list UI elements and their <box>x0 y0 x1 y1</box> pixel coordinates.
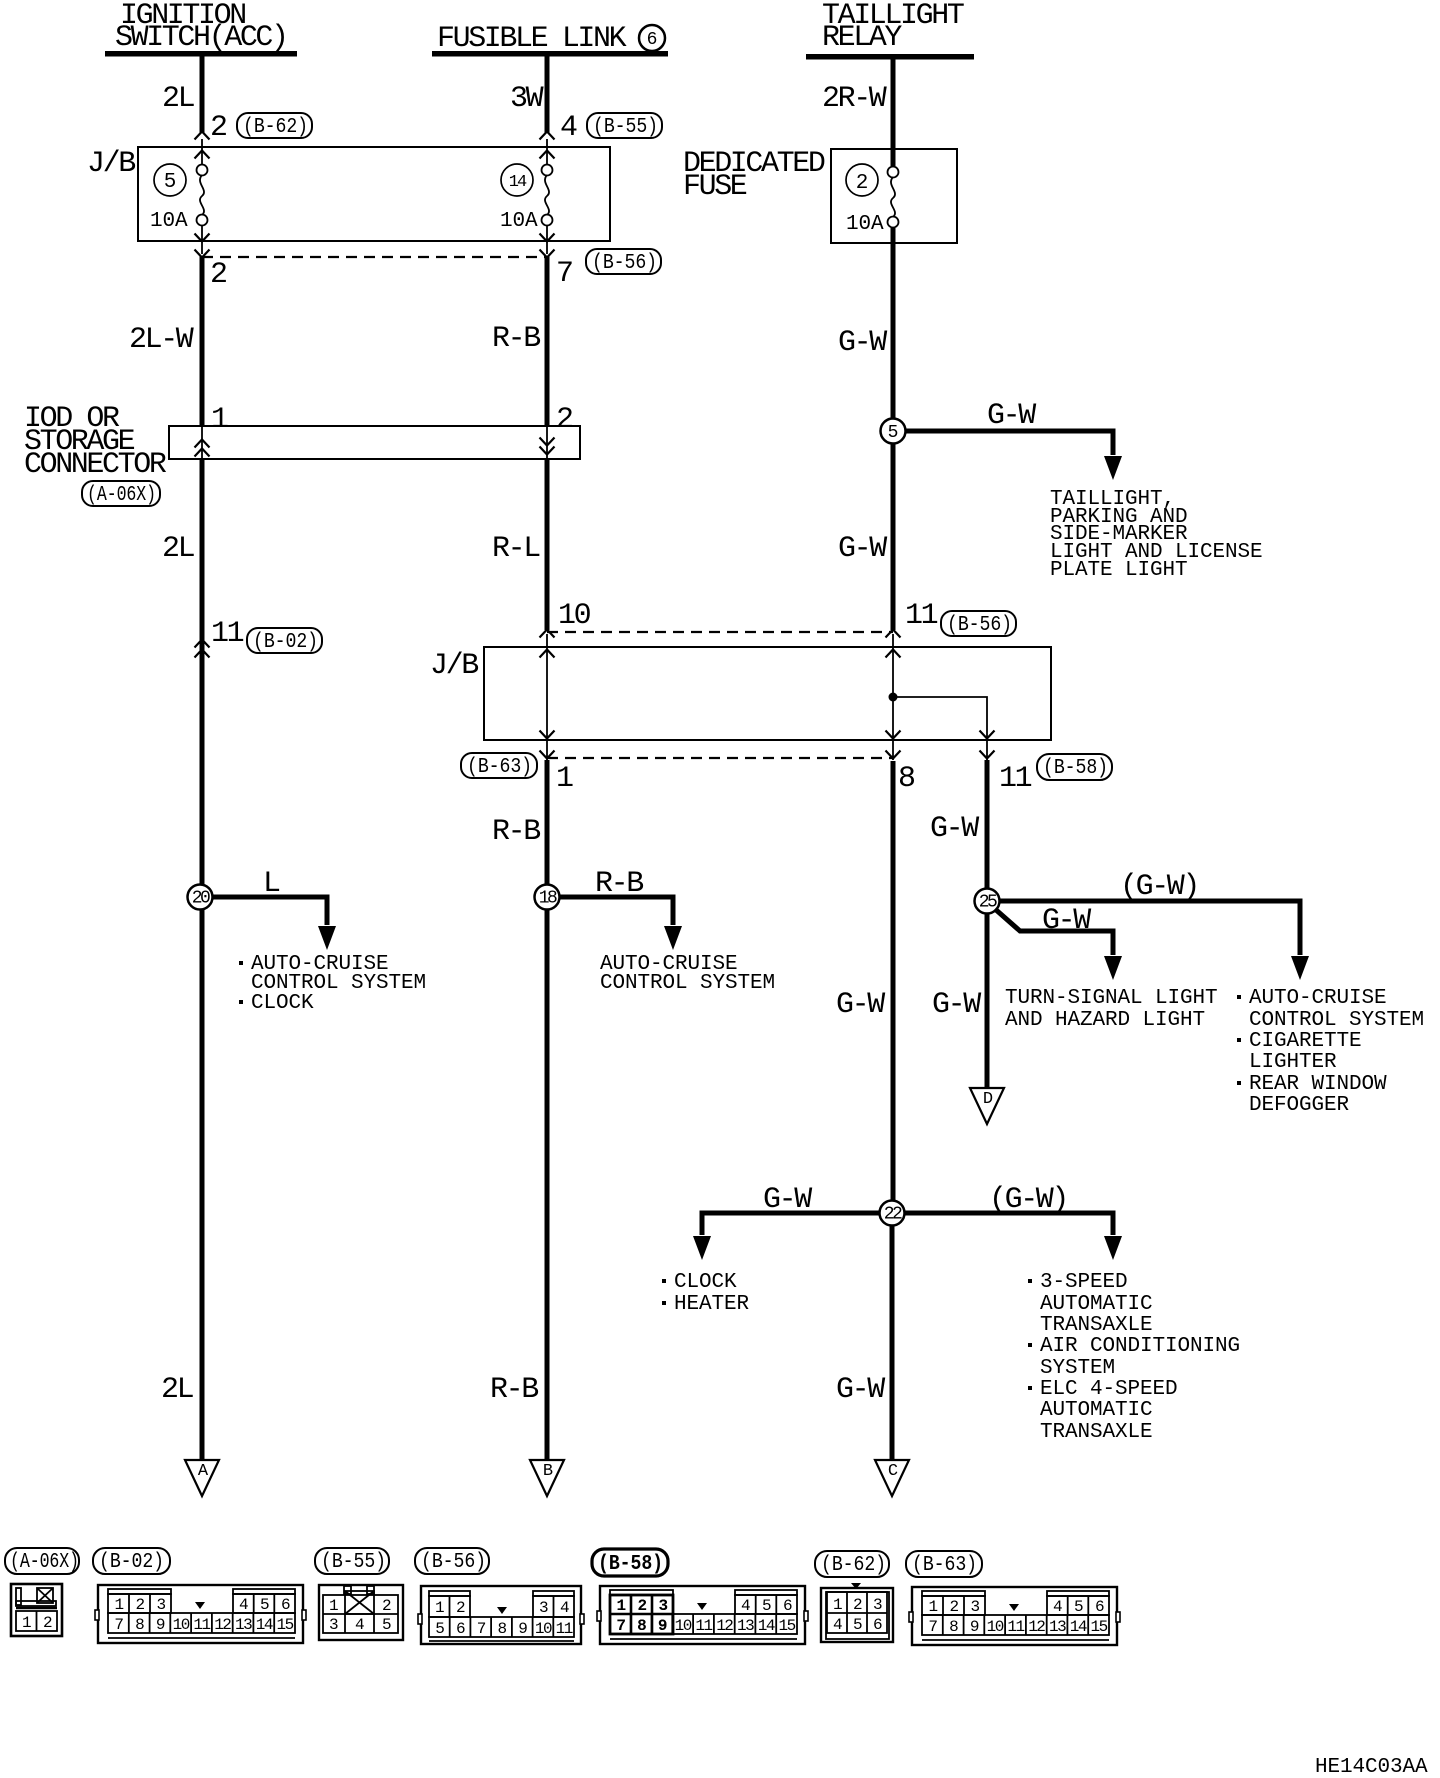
svg-text:(B-56): (B-56) <box>947 614 1012 637</box>
svg-text:L: L <box>263 867 280 901</box>
connector legend B-62 pinout <box>821 1583 893 1642</box>
svg-text:R-B: R-B <box>595 867 643 901</box>
load list: auto-cruise, cigarette lighter, rear window defogger <box>1237 987 1424 1117</box>
svg-text:G-W: G-W <box>932 988 981 1022</box>
junction block J/B 2 box <box>430 647 1051 740</box>
svg-text:(B-62): (B-62) <box>821 1554 886 1577</box>
svg-text:2: 2 <box>856 172 869 195</box>
load: auto-cruise control system <box>600 953 775 995</box>
svg-text:SYSTEM: SYSTEM <box>1040 1357 1115 1380</box>
dashed connector line B-56 top <box>202 256 547 258</box>
svg-text:CLOCK: CLOCK <box>251 992 314 1015</box>
branch wire from junction 18, R-B <box>559 867 682 950</box>
power source: TAILLIGHT RELAY <box>806 0 974 60</box>
ground/continuation triangle B <box>530 1460 564 1496</box>
thin wire through fuse 14 <box>546 139 548 165</box>
branch wire left from junction 22, G-W <box>693 1183 880 1260</box>
svg-text:1: 1 <box>616 1597 625 1615</box>
svg-text:AUTOMATIC: AUTOMATIC <box>1040 1293 1153 1316</box>
IOD connector chevrons, wire L <box>195 440 210 448</box>
svg-text:4: 4 <box>560 111 577 145</box>
thin wire R inside J/B 2 <box>892 634 894 760</box>
svg-text:TRANSAXLE: TRANSAXLE <box>1040 1314 1153 1337</box>
svg-text:G-W: G-W <box>930 812 979 846</box>
svg-text:PLATE LIGHT: PLATE LIGHT <box>1050 559 1188 582</box>
branch wire L from junction 20 <box>212 867 336 950</box>
fuse 2 number circle <box>846 164 878 196</box>
svg-text:TURN-SIGNAL LIGHT: TURN-SIGNAL LIGHT <box>1005 987 1218 1010</box>
wire: IOD connector to junction 20 and triangle A, 2L <box>200 458 205 1460</box>
svg-text:1: 1 <box>556 762 573 796</box>
svg-text:2L: 2L <box>161 1373 194 1407</box>
connector legend B-58 pinout, pins 1-3 and 7-9 highlighted <box>597 1586 808 1644</box>
junction block J/B box with fuses 5 and 14 <box>87 147 610 241</box>
connector legend B-02 pinout <box>95 1585 306 1643</box>
svg-text:2L-W: 2L-W <box>129 323 194 357</box>
svg-text:10: 10 <box>558 599 591 633</box>
chevrons wire R at J/B 2 bottom <box>886 731 901 739</box>
connector chevrons at J/B top, wire L <box>195 132 210 140</box>
IOD OR STORAGE CONNECTOR box <box>24 402 580 482</box>
svg-text:G-W: G-W <box>763 1183 812 1217</box>
svg-text:7: 7 <box>616 1617 625 1635</box>
load list: taillight, parking and side-marker light and license plate light <box>1050 488 1263 582</box>
svg-text:5: 5 <box>382 1616 391 1634</box>
junction 18 circle <box>535 885 560 910</box>
connector B-62 label <box>237 113 312 139</box>
connector B-02 chevrons on wire L <box>195 640 210 648</box>
thin wire L inside IOD connector <box>201 427 203 458</box>
svg-text:G-W: G-W <box>1042 904 1091 938</box>
svg-text:J/B: J/B <box>430 649 478 683</box>
svg-text:5: 5 <box>853 1616 862 1634</box>
branch wire right from junction 22, (G-W) <box>904 1183 1122 1260</box>
connector legend B-55 pinout <box>319 1585 403 1640</box>
svg-text:2: 2 <box>556 403 572 437</box>
svg-text:6: 6 <box>647 30 658 50</box>
svg-text:20: 20 <box>192 889 210 909</box>
wire: B-63 to junction 18, R-B <box>545 760 550 1460</box>
svg-text:4: 4 <box>355 1616 364 1634</box>
svg-text:AUTOMATIC: AUTOMATIC <box>1040 1399 1153 1422</box>
chevrons wire R2 at J/B 2 bottom <box>980 731 995 739</box>
connector legend A-06X pinout <box>11 1584 62 1636</box>
connector legend B-56 label <box>415 1548 489 1574</box>
connector B-55 label <box>587 113 662 139</box>
branch wire from junction 5, G-W <box>905 399 1122 480</box>
junction node dot inside J/B <box>889 693 898 702</box>
wire: J/B 2 pin 8 to junction 22, G-W <box>891 761 896 1201</box>
ground/continuation triangle A <box>185 1460 219 1496</box>
wire R2 from junction 25 down to triangle D <box>985 913 990 1088</box>
svg-text:(B-56): (B-56) <box>421 1551 486 1574</box>
svg-text:1: 1 <box>211 403 228 437</box>
svg-text:G-W: G-W <box>836 1373 885 1407</box>
junction 20 circle <box>188 885 213 910</box>
thin wire M inside IOD connector <box>546 427 548 458</box>
svg-text:3: 3 <box>329 1616 338 1634</box>
chevrons wire R at J/B 2 top <box>886 630 901 638</box>
IOD connector chevrons, wire M <box>540 438 555 446</box>
svg-text:2: 2 <box>382 1597 391 1615</box>
wire: fusible link to J/B fuse 14, 3W <box>545 56 550 133</box>
wire R2: B-58 pin 11 down to junction 25, G-W <box>985 760 990 889</box>
junction 22 circle <box>880 1201 905 1226</box>
connector legend B-58 label, highlighted <box>592 1549 668 1576</box>
svg-text:SWITCH(ACC): SWITCH(ACC) <box>115 21 287 55</box>
svg-text:FUSIBLE LINK: FUSIBLE LINK <box>437 22 627 56</box>
svg-text:(B-58): (B-58) <box>598 1553 663 1576</box>
svg-text:HEATER: HEATER <box>674 1293 750 1316</box>
dashed connector line B-56 middle <box>547 631 893 633</box>
svg-text:1: 1 <box>833 1596 842 1614</box>
svg-text:5: 5 <box>164 171 177 194</box>
svg-text:1: 1 <box>329 1597 338 1615</box>
svg-text:DEFOGGER: DEFOGGER <box>1249 1094 1350 1117</box>
svg-text:(B-63): (B-63) <box>467 756 532 779</box>
wire: dedicated fuse to junction 5 and J/B 2, G-W <box>891 228 896 630</box>
svg-text:5: 5 <box>888 423 899 443</box>
branch wire from junction 25 diagonal, G-W <box>995 904 1122 980</box>
svg-text:CONTROL SYSTEM: CONTROL SYSTEM <box>1249 1009 1424 1032</box>
svg-text:25: 25 <box>979 893 997 913</box>
connector legend B-62 label <box>815 1551 889 1577</box>
svg-text:R-B: R-B <box>492 815 540 849</box>
dashed connector line B-63 <box>547 757 893 759</box>
fuse 2 element <box>888 167 899 228</box>
wire: J/B to IOD connector, R-B <box>545 256 550 427</box>
wire: IOD connector to J/B 2, R-L <box>545 458 550 630</box>
svg-text:CONNECTOR: CONNECTOR <box>24 448 167 482</box>
svg-text:R-L: R-L <box>492 532 540 566</box>
svg-text:2: 2 <box>43 1614 52 1632</box>
fuse 14 element <box>542 165 553 226</box>
wire R to triangle C, G-W <box>890 1225 895 1460</box>
load list: clock, heater <box>662 1271 750 1316</box>
chevrons wire M at J/B 2 bottom <box>540 731 555 739</box>
load list: auto-cruise control system, clock <box>239 953 426 1015</box>
svg-text:CIGARETTE: CIGARETTE <box>1249 1030 1362 1053</box>
svg-text:6: 6 <box>873 1616 882 1634</box>
svg-text:(B-58): (B-58) <box>1043 757 1108 780</box>
svg-text:3-SPEED: 3-SPEED <box>1040 1271 1128 1294</box>
svg-text:7: 7 <box>556 257 572 291</box>
svg-text:FUSE: FUSE <box>683 170 747 204</box>
svg-text:(B-63): (B-63) <box>912 1554 977 1577</box>
svg-text:3: 3 <box>873 1596 882 1614</box>
wire: taillight relay to dedicated fuse, 2R-W <box>891 59 896 166</box>
branch wire inside J/B to pin 11 B-58 <box>893 697 987 760</box>
svg-text:(G-W): (G-W) <box>1120 870 1198 904</box>
chevrons wire M at J/B 2 top <box>540 630 555 638</box>
svg-text:(A-06X): (A-06X) <box>87 484 156 507</box>
svg-text:TRANSAXLE: TRANSAXLE <box>1040 1421 1153 1444</box>
load: turn-signal light and hazard light <box>1005 987 1218 1032</box>
svg-text:RELAY: RELAY <box>822 21 902 55</box>
svg-text:(G-W): (G-W) <box>989 1183 1067 1217</box>
svg-text:LIGHTER: LIGHTER <box>1249 1051 1337 1074</box>
svg-text:ELC 4-SPEED: ELC 4-SPEED <box>1040 1378 1178 1401</box>
load list: 3-speed automatic transaxle, air conditioning system, ELC 4-speed automatic transaxle <box>1028 1271 1240 1444</box>
connector B-56 label <box>586 249 661 275</box>
svg-text:2: 2 <box>210 111 226 145</box>
connector legend B-63 label <box>906 1551 982 1577</box>
svg-text:2R-W: 2R-W <box>822 82 887 116</box>
svg-text:10A: 10A <box>150 210 188 233</box>
svg-text:G-W: G-W <box>836 988 885 1022</box>
ground/continuation triangle C <box>875 1460 909 1496</box>
thin wire M inside J/B 2 <box>546 634 548 760</box>
svg-text:CLOCK: CLOCK <box>674 1271 737 1294</box>
svg-text:11: 11 <box>905 599 938 633</box>
svg-text:10A: 10A <box>500 210 538 233</box>
branch wire from junction 25 top, (G-W) <box>999 870 1309 980</box>
connector B-56 lower label <box>941 611 1016 637</box>
junction 5 circle <box>881 419 906 444</box>
connector B-63 label <box>461 753 537 779</box>
svg-text:8: 8 <box>898 762 915 796</box>
svg-text:(B-55): (B-55) <box>321 1551 386 1574</box>
connector chevrons at J/B top, wire M <box>540 132 555 140</box>
wire: ignition switch to J/B fuse 5, 2L <box>200 56 205 133</box>
svg-text:R-B: R-B <box>490 1373 538 1407</box>
fuse 14 number circle <box>501 164 533 196</box>
svg-text:(A-06X): (A-06X) <box>10 1551 79 1574</box>
svg-text:J/B: J/B <box>87 147 135 181</box>
svg-text:22: 22 <box>884 1205 902 1225</box>
svg-text:11: 11 <box>211 617 244 651</box>
svg-text:CONTROL SYSTEM: CONTROL SYSTEM <box>600 972 775 995</box>
power source: IGNITION SWITCH (ACC) <box>105 0 297 57</box>
svg-text:1: 1 <box>22 1614 31 1632</box>
svg-text:G-W: G-W <box>838 532 887 566</box>
connector legend A-06X label <box>5 1548 79 1574</box>
connector chevrons at J/B bottom, wire M <box>540 234 555 242</box>
connector legend B-63 pinout <box>909 1587 1120 1645</box>
svg-text:2: 2 <box>637 1597 646 1615</box>
svg-text:G-W: G-W <box>987 399 1036 433</box>
svg-text:(B-55): (B-55) <box>593 116 658 139</box>
connector chevrons at J/B bottom, wire L <box>195 234 210 242</box>
svg-text:(B-56): (B-56) <box>592 252 657 275</box>
svg-text:14: 14 <box>509 173 527 192</box>
svg-text:3: 3 <box>658 1597 667 1615</box>
svg-text:R-B: R-B <box>492 322 540 356</box>
svg-text:2: 2 <box>210 258 226 292</box>
svg-text:(B-62): (B-62) <box>243 116 308 139</box>
svg-text:HE14C03AA: HE14C03AA <box>1315 1756 1428 1778</box>
svg-text:2L: 2L <box>162 82 195 116</box>
connector B-02 label <box>247 628 322 654</box>
thin wire through fuse 5 <box>201 139 203 165</box>
svg-text:AND HAZARD LIGHT: AND HAZARD LIGHT <box>1005 1009 1205 1032</box>
svg-text:11: 11 <box>999 762 1032 796</box>
connector legend B-56 pinout <box>418 1586 584 1644</box>
connector B-58 label <box>1037 754 1112 780</box>
svg-text:(B-02): (B-02) <box>253 631 318 654</box>
svg-text:3W: 3W <box>510 82 544 116</box>
svg-text:AUTO-CRUISE: AUTO-CRUISE <box>1249 987 1387 1010</box>
svg-text:18: 18 <box>539 889 557 909</box>
dedicated fuse box with fuse 2 <box>683 147 957 243</box>
connector legend B-02 label <box>93 1548 170 1574</box>
svg-text:2L: 2L <box>162 532 195 566</box>
junction 25 circle <box>975 889 1000 914</box>
svg-text:REAR WINDOW: REAR WINDOW <box>1249 1073 1387 1096</box>
svg-text:10A: 10A <box>846 213 884 236</box>
svg-text:AIR CONDITIONING: AIR CONDITIONING <box>1040 1335 1240 1358</box>
svg-text:(B-02): (B-02) <box>99 1551 164 1574</box>
connector legend B-55 label <box>315 1548 389 1574</box>
ground/continuation triangle D <box>970 1088 1004 1124</box>
svg-text:G-W: G-W <box>838 326 887 360</box>
fuse 5 element <box>197 165 208 226</box>
svg-text:8: 8 <box>637 1617 646 1635</box>
connector A-06X label <box>82 481 160 507</box>
svg-text:9: 9 <box>658 1617 667 1635</box>
fuse 5 number circle <box>154 164 186 196</box>
wire: J/B to IOD connector, 2L-W <box>200 256 205 427</box>
power source: FUSIBLE LINK 6 <box>432 22 668 57</box>
svg-text:4: 4 <box>833 1616 842 1634</box>
svg-text:2: 2 <box>853 1596 862 1614</box>
